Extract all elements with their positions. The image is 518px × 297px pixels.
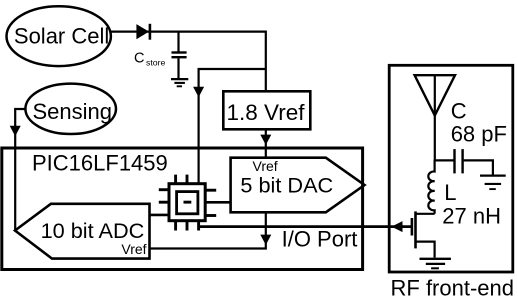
svg-text:RF front-end: RF front-end bbox=[391, 276, 515, 297]
svg-text:L: L bbox=[444, 180, 456, 205]
svg-text:C: C bbox=[134, 51, 144, 67]
svg-text:store: store bbox=[146, 58, 165, 68]
svg-text:I/O Port: I/O Port bbox=[282, 226, 358, 251]
svg-text:Solar Cell: Solar Cell bbox=[14, 23, 109, 48]
svg-text:1.8 Vref: 1.8 Vref bbox=[227, 100, 306, 125]
svg-text:27 nH: 27 nH bbox=[442, 204, 501, 229]
svg-text:PIC16LF1459: PIC16LF1459 bbox=[32, 151, 168, 176]
svg-text:C: C bbox=[451, 98, 467, 123]
svg-text:10 bit ADC: 10 bit ADC bbox=[41, 218, 145, 243]
svg-text:Vref: Vref bbox=[253, 158, 278, 174]
svg-text:5 bit DAC: 5 bit DAC bbox=[240, 173, 333, 198]
svg-text:68 pF: 68 pF bbox=[451, 122, 507, 147]
svg-text:Vref: Vref bbox=[121, 241, 146, 257]
svg-text:Sensing: Sensing bbox=[33, 99, 113, 124]
